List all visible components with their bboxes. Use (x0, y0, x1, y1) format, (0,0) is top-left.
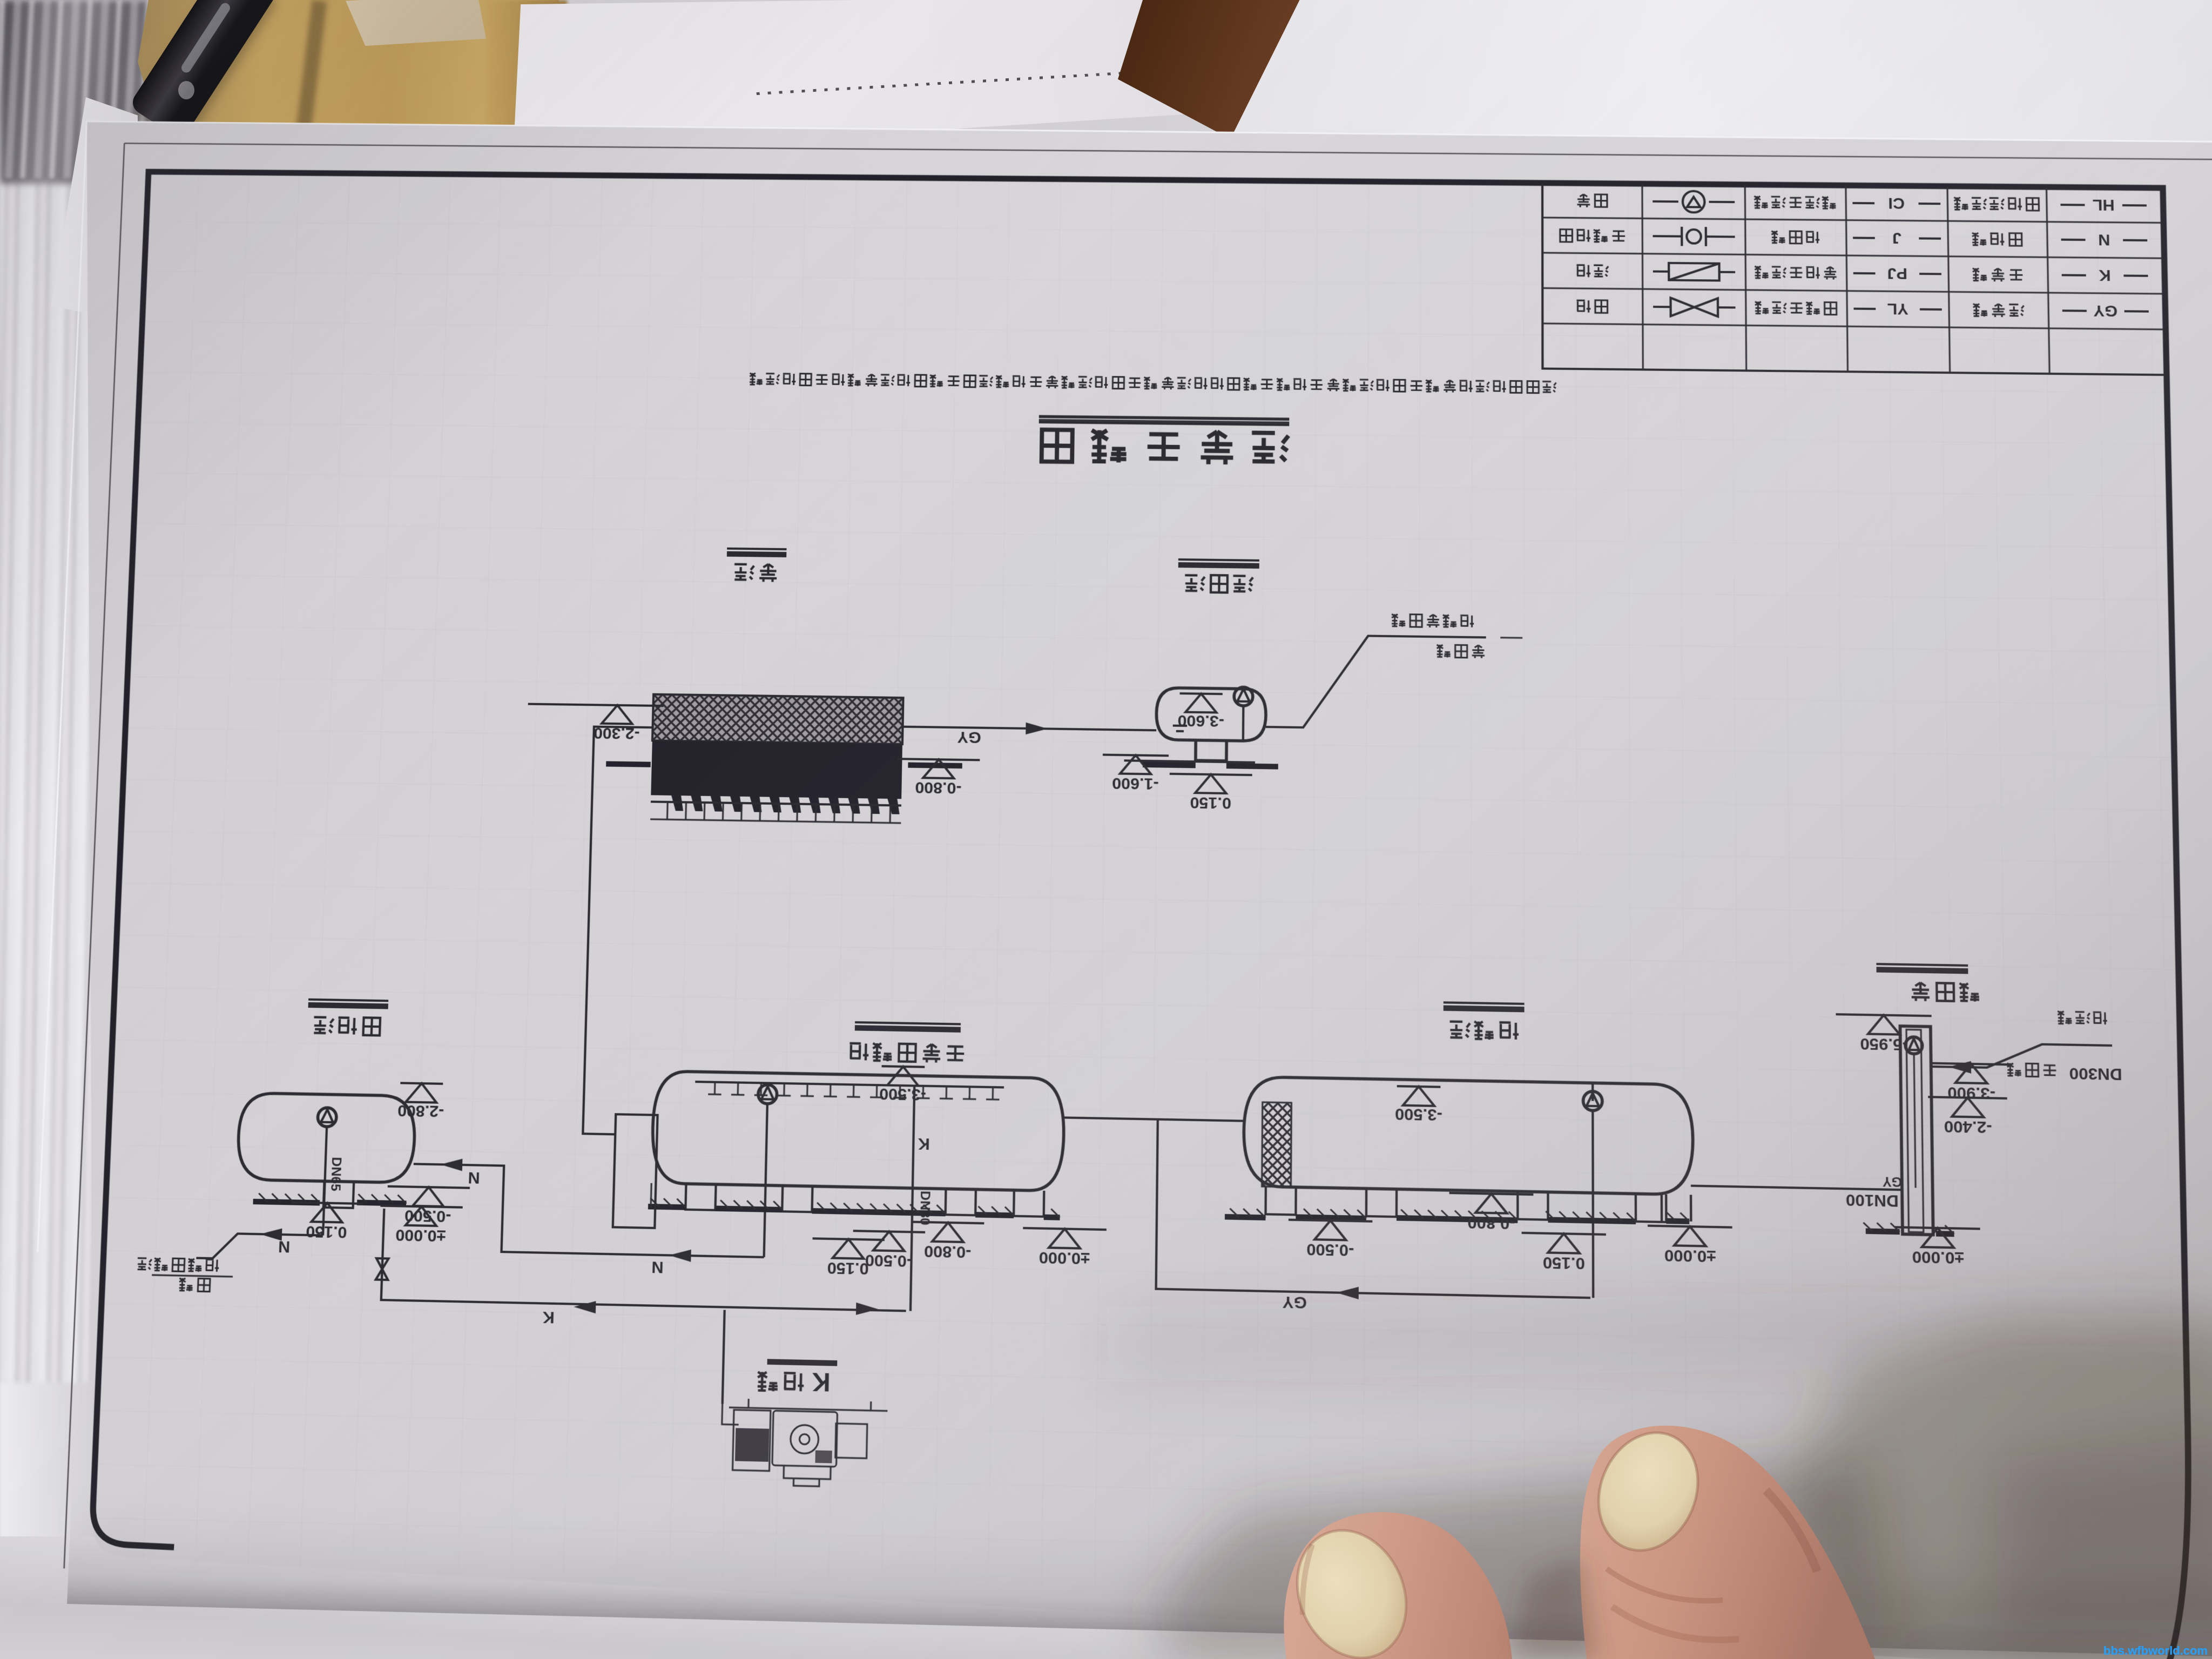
water level -2.800 (400, 1083, 443, 1083)
manhole neck of 污泥池 (323, 1181, 354, 1208)
marker -0.800 at 调节池 (1449, 1193, 1534, 1195)
pipe between 调节池 and 一体化设备 (1063, 1117, 1244, 1121)
filter 滤池 media bed (652, 694, 903, 744)
pipe DN300 进水管 inflow (1931, 1042, 2113, 1070)
pipe GY from 滤池 to 清水池 (903, 727, 1157, 731)
markers 0.150 / ±0.000 at 污泥池 (292, 1202, 363, 1204)
clear plastic + pen (346, 0, 486, 46)
marker 0.150 at 清水池 (1170, 774, 1252, 775)
desk surface top right (1053, 0, 2212, 378)
manhole neck of 清水池 (1196, 740, 1226, 761)
title 工艺流程图 (1252, 433, 1289, 462)
ground line at 调节池 (1666, 1218, 1689, 1224)
marker -5.950 water level (1836, 1014, 1931, 1016)
thumb (1278, 1512, 1512, 1659)
notes text line (1542, 381, 1556, 392)
water level -3.500 一体化设备 (882, 1066, 925, 1067)
inlet baffle in 调节池 (1262, 1102, 1292, 1187)
ground line at 污泥池 (357, 1203, 406, 1204)
aeration diffusers (695, 1082, 1004, 1087)
shadow between fingers on paper (1512, 1555, 1599, 1659)
manhole necks of 一体化设备 (1014, 1190, 1044, 1217)
label 排水管 / 接至场外排水点 (1472, 645, 1485, 658)
marker -1.600 (1103, 755, 1169, 756)
label 滤池 (759, 564, 777, 582)
label 清水池 (1233, 576, 1253, 591)
tank 一体化设备 (integrated unit) (651, 1071, 1064, 1191)
marker ±0.000 at 格栅井 (1895, 1227, 1980, 1229)
ground line at 清水池 (1124, 760, 1255, 763)
label K风机 (784, 1373, 804, 1391)
pump in 污泥池 with DN65 riser (318, 1108, 337, 1127)
pipe N to sludge truck (196, 1233, 323, 1260)
dark wedge + top-right sheet (1118, 0, 1339, 140)
filter distributor stubs (889, 805, 892, 823)
blower K风机 machine (720, 1398, 887, 1488)
pipe K from blower (723, 1310, 725, 1404)
big hand shadow over bottom-right paper (1107, 1285, 2212, 1659)
cardboard box (138, 0, 559, 162)
legend table (1542, 184, 2164, 375)
dotted perforation sheet (top middle) (513, 0, 1280, 157)
pipe K air main (381, 1209, 908, 1311)
inlet neck 调节池 (1662, 1194, 1691, 1221)
label DN300 进水管 自管网 (2043, 1065, 2056, 1075)
label 污泥管 / 接至污泥车 (198, 1279, 210, 1292)
pump in 调节池 with riser (1583, 1091, 1602, 1111)
watermark (2103, 1644, 2208, 1658)
marker -2.300 (571, 705, 664, 706)
markers ±0.000 / 0.150 / -0.500 at 调节池 (1648, 1226, 1732, 1228)
valve on K branch (376, 1258, 389, 1280)
label 格栅井 (1960, 983, 1979, 1002)
markers at 一体化设备 (1023, 1228, 1107, 1230)
water level -3.500 调节池 (1397, 1086, 1441, 1087)
sludge pump in 一体化设备 (758, 1084, 777, 1104)
pipe N 一体化设备 to 污泥池 (411, 1164, 766, 1257)
ground at 滤池 (908, 765, 962, 766)
pipe 排水管 outfall (1266, 635, 1486, 730)
label 污泥池 (363, 1017, 380, 1035)
pipe feed 一体化设备 to 滤池 (583, 727, 652, 1135)
manhole necks of 调节池 (1636, 1193, 1667, 1222)
water level -3.600 (1180, 693, 1223, 694)
label 调节池 (1499, 1022, 1519, 1040)
label 一体化设备 (946, 1047, 964, 1061)
marker -2.400 (1928, 1097, 2007, 1098)
outlet chamber of 一体化设备 (613, 1114, 658, 1228)
under sheet below the drawing paper (0, 1536, 2212, 1659)
pump in 清水池 (1234, 687, 1253, 706)
marker -3.900 (1932, 1063, 2011, 1065)
pipe GY DN100 格栅井 to 调节池 (1691, 1186, 1902, 1190)
marker -0.800 at 滤池 (898, 759, 980, 760)
tank 污泥池 (sludge tank) (237, 1093, 416, 1183)
index finger (1580, 1418, 1944, 1659)
ground line at 一体化设备 (1044, 1215, 1060, 1220)
pipe GY 调节池 to 一体化设备 (1156, 1120, 1590, 1298)
tank 调节池 (regulating tank) (1244, 1077, 1694, 1195)
ground line at 格栅井 (1936, 1231, 1954, 1237)
paper stack left edge (0, 0, 162, 1659)
tank 清水池 (clear water tank) (1156, 687, 1266, 741)
well 格栅井 (grate well) (1900, 1026, 1933, 1235)
pipe K riser DN80 (911, 1086, 914, 1311)
pump in 格栅井 (1905, 1037, 1923, 1054)
